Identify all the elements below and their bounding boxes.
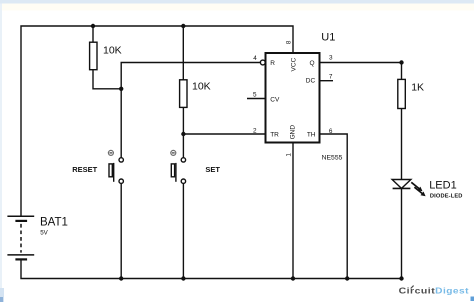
svg-text:DC: DC xyxy=(306,78,316,85)
svg-text:SET: SET xyxy=(205,165,220,174)
svg-text:RESET: RESET xyxy=(72,165,97,174)
svg-text:1K: 1K xyxy=(411,82,424,94)
svg-text:DIODE-LED: DIODE-LED xyxy=(430,194,463,200)
svg-text:CircuitDigest: CircuitDigest xyxy=(399,286,469,296)
svg-text:3: 3 xyxy=(329,55,333,62)
svg-text:BAT1: BAT1 xyxy=(40,217,68,229)
svg-text:8: 8 xyxy=(286,40,293,44)
svg-text:GND: GND xyxy=(290,125,297,140)
svg-text:7: 7 xyxy=(329,74,333,81)
svg-text:R: R xyxy=(270,60,275,67)
svg-text:4: 4 xyxy=(253,55,257,62)
svg-text:2: 2 xyxy=(253,128,257,135)
svg-text:Q: Q xyxy=(310,60,315,67)
svg-text:10K: 10K xyxy=(103,45,122,57)
svg-text:5V: 5V xyxy=(40,229,48,236)
svg-text:TR: TR xyxy=(270,132,279,139)
svg-text:U1: U1 xyxy=(321,31,335,43)
svg-text:CV: CV xyxy=(270,96,280,103)
svg-text:5: 5 xyxy=(253,91,257,98)
svg-text:TH: TH xyxy=(307,132,316,139)
svg-text:LED1: LED1 xyxy=(429,180,457,192)
svg-text:NE555: NE555 xyxy=(322,155,343,162)
svg-text:1: 1 xyxy=(286,153,293,157)
svg-text:10K: 10K xyxy=(192,81,211,93)
svg-text:VCC: VCC xyxy=(290,57,297,71)
svg-text:6: 6 xyxy=(329,128,333,135)
